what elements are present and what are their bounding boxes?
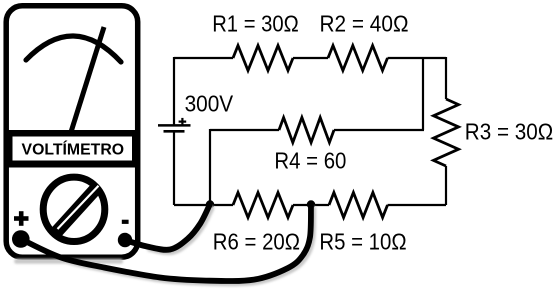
node B junction dot	[307, 200, 315, 208]
wire middle horizontal right of R4	[334, 129, 424, 131]
resistor R6	[233, 193, 293, 218]
voltmeter needle	[71, 27, 104, 132]
battery plus sign	[179, 118, 187, 125]
voltmeter plus sign	[14, 211, 29, 226]
voltmeter label band	[8, 130, 136, 168]
resistor R5	[329, 193, 388, 218]
svg-text:300V: 300V	[185, 90, 234, 116]
wire from battery down to bottom wire	[173, 132, 175, 206]
svg-text:R1 = 30Ω: R1 = 30Ω	[212, 11, 299, 37]
wire between R1 and R2	[293, 57, 328, 59]
wire right vertical down to R3	[445, 57, 447, 99]
voltmeter positive terminal	[12, 230, 30, 248]
voltmeter knob pointer slot	[58, 186, 99, 229]
wire from R3 down to bottom right corner	[445, 166, 447, 205]
wire inner vertical from top wire down to middle wire	[422, 58, 424, 130]
battery 300V positive plate	[158, 124, 191, 127]
resistor R2	[328, 46, 388, 71]
voltmeter minus sign	[122, 220, 129, 224]
test lead wire shadows	[17, 208, 314, 284]
wire top right to corner	[388, 57, 447, 59]
wire between R6 and R5	[293, 204, 329, 206]
svg-text:R3 = 30Ω: R3 = 30Ω	[465, 119, 553, 145]
wire top horizontal from battery to R1	[174, 57, 233, 59]
test lead wire from negative terminal to node A	[125, 206, 209, 250]
voltmeter body	[6, 6, 138, 258]
svg-text:R2 = 40Ω: R2 = 40Ω	[320, 11, 409, 37]
wire bottom horizontal from battery corner to R6	[174, 204, 233, 206]
node A junction dot	[206, 200, 214, 208]
voltmeter scale arc	[26, 36, 121, 62]
wire middle horizontal left of R4	[210, 129, 279, 131]
voltmeter knob pointer bar	[52, 184, 101, 238]
wire bottom right from R5 to corner	[388, 204, 447, 206]
svg-text:VOLTÍMETRO: VOLTÍMETRO	[22, 140, 125, 159]
resistor R3	[434, 99, 459, 166]
voltmeter label box	[13, 137, 133, 161]
resistor R1	[233, 46, 293, 71]
resistor R4	[279, 118, 334, 143]
battery 300V negative plate	[164, 130, 185, 133]
wire left vertical from top wire to battery	[173, 57, 175, 125]
wire vertical from middle wire to node A	[209, 129, 211, 205]
voltmeter selector knob ring	[43, 177, 105, 241]
svg-text:R4 = 60: R4 = 60	[274, 147, 346, 173]
svg-text:R5 = 10Ω: R5 = 10Ω	[319, 228, 406, 254]
voltmeter negative terminal	[118, 233, 132, 247]
test lead wire from positive terminal to node B	[21, 206, 311, 281]
svg-text:R6 = 20Ω: R6 = 20Ω	[213, 228, 300, 254]
